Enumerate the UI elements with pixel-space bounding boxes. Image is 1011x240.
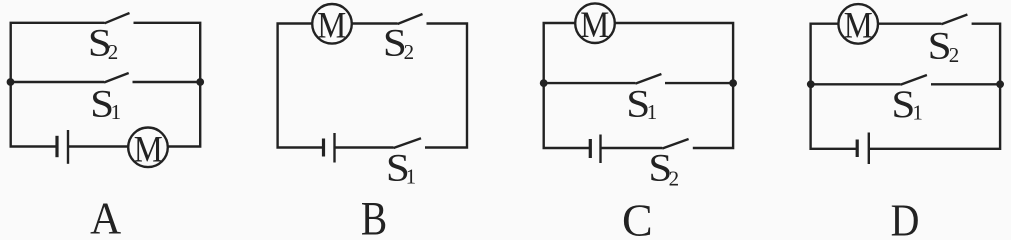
svg-text:C: C xyxy=(622,194,653,236)
svg-text:M: M xyxy=(580,5,609,46)
svg-text:B: B xyxy=(361,193,387,236)
svg-text:M: M xyxy=(844,5,873,46)
svg-text:2: 2 xyxy=(108,40,119,64)
svg-text:2: 2 xyxy=(669,166,680,190)
svg-text:2: 2 xyxy=(404,40,415,64)
svg-text:M: M xyxy=(134,129,163,170)
svg-text:1: 1 xyxy=(406,164,417,188)
svg-text:D: D xyxy=(891,195,920,236)
svg-text:1: 1 xyxy=(647,100,658,124)
svg-text:1: 1 xyxy=(912,101,923,125)
svg-text:A: A xyxy=(90,194,121,236)
svg-text:1: 1 xyxy=(111,100,122,124)
svg-text:2: 2 xyxy=(949,43,960,67)
svg-text:M: M xyxy=(317,6,346,47)
